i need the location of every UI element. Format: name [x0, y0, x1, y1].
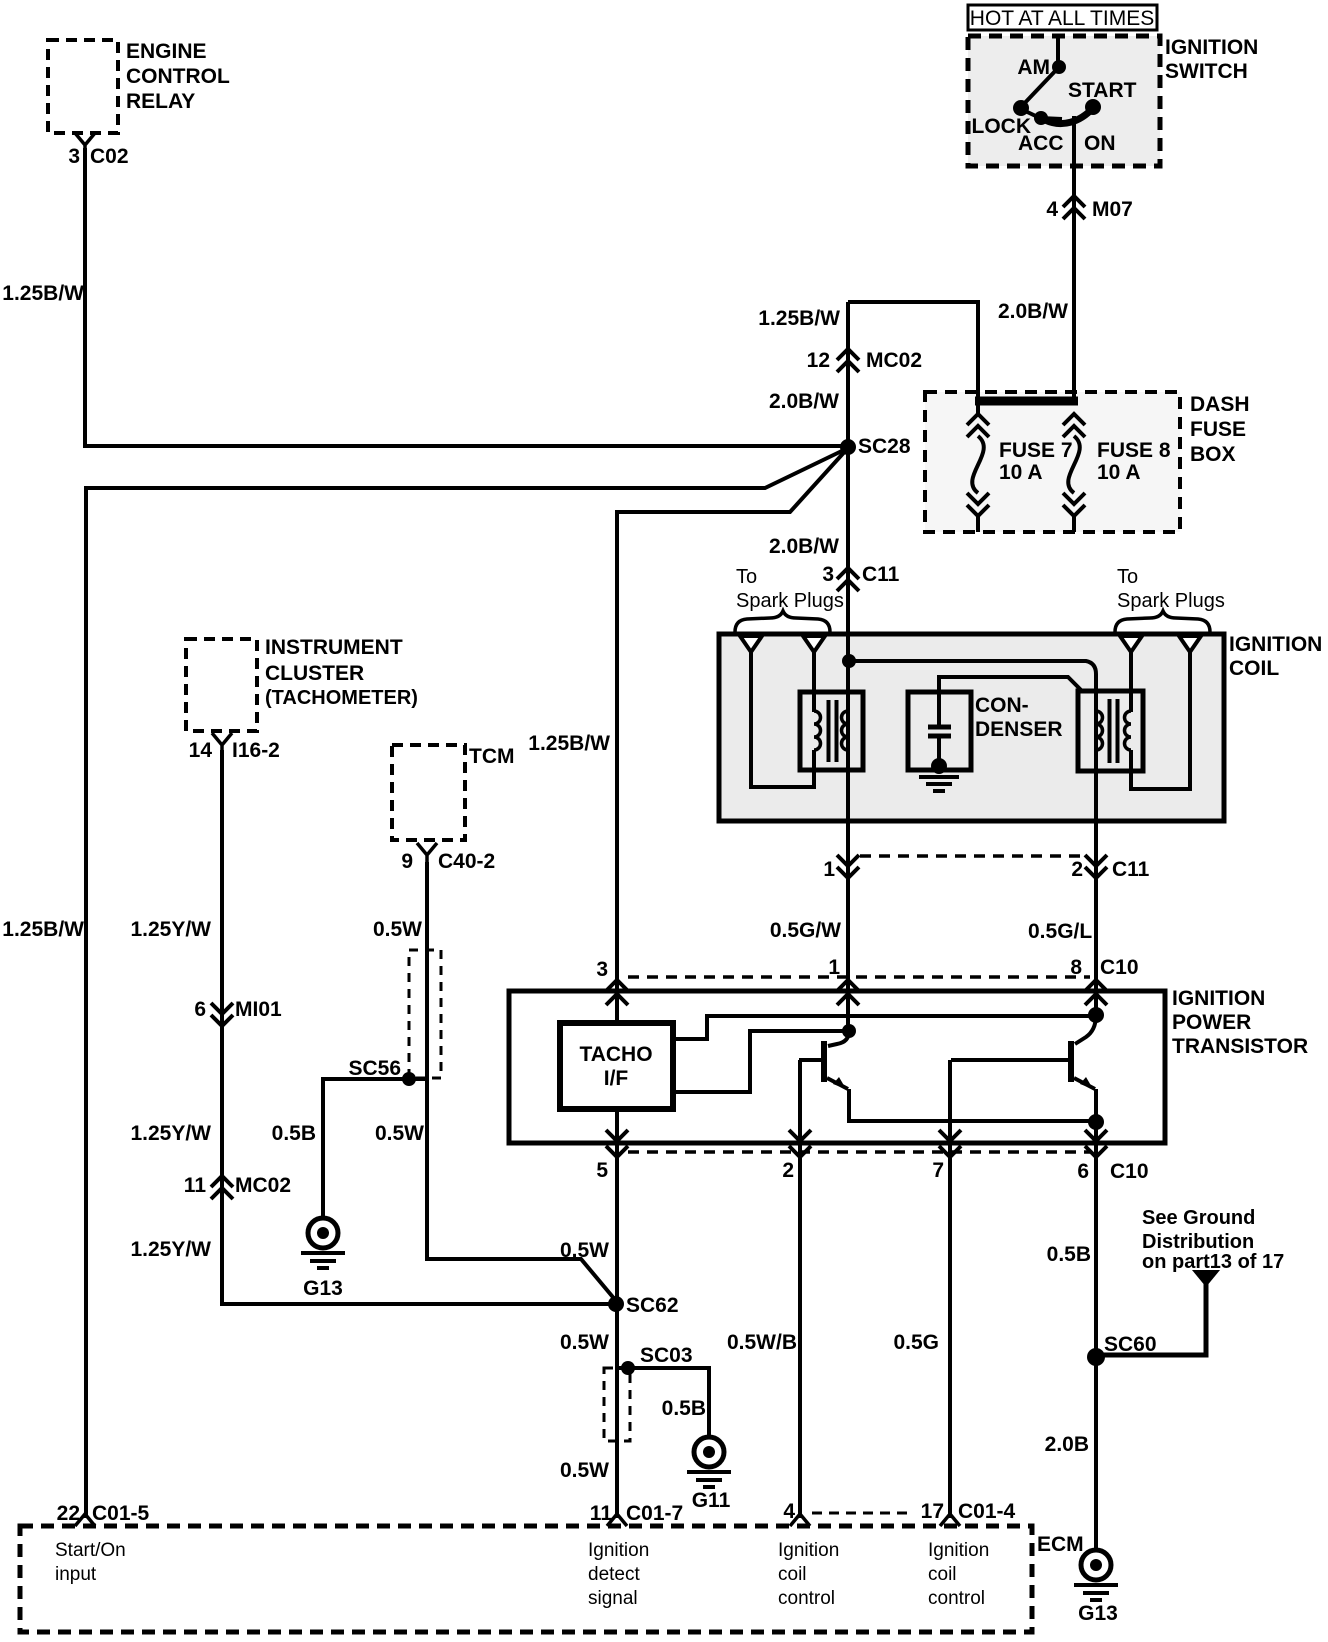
svg-text:0.5W: 0.5W: [375, 1122, 424, 1145]
svg-text:SC62: SC62: [626, 1294, 679, 1317]
svg-text:control: control: [778, 1588, 835, 1609]
svg-text:Ignition: Ignition: [778, 1540, 839, 1561]
svg-text:I/F: I/F: [604, 1067, 629, 1090]
svg-text:12: 12: [807, 349, 830, 372]
svg-text:G13: G13: [1078, 1602, 1118, 1625]
svg-text:2.0B: 2.0B: [1045, 1433, 1089, 1456]
svg-text:14: 14: [189, 739, 213, 762]
svg-text:RELAY: RELAY: [126, 90, 195, 113]
svg-text:17: 17: [921, 1500, 944, 1523]
svg-text:MC02: MC02: [235, 1174, 291, 1197]
svg-text:2: 2: [782, 1159, 794, 1182]
svg-text:11: 11: [184, 1174, 207, 1197]
svg-text:6: 6: [194, 998, 206, 1021]
svg-text:CLUSTER: CLUSTER: [265, 662, 364, 685]
svg-text:3: 3: [68, 145, 80, 168]
svg-text:0.5G: 0.5G: [893, 1331, 939, 1354]
svg-text:Distribution: Distribution: [1142, 1231, 1254, 1253]
svg-text:2.0B/W: 2.0B/W: [769, 390, 839, 413]
svg-text:C10: C10: [1110, 1160, 1149, 1183]
svg-text:SC28: SC28: [858, 435, 911, 458]
svg-text:To: To: [1117, 566, 1138, 588]
svg-text:0.5B: 0.5B: [272, 1122, 316, 1145]
svg-text:0.5G/W: 0.5G/W: [770, 919, 841, 942]
svg-text:SC60: SC60: [1104, 1333, 1157, 1356]
svg-text:POWER: POWER: [1172, 1011, 1251, 1034]
svg-text:0.5B: 0.5B: [662, 1397, 706, 1420]
svg-text:Ignition: Ignition: [928, 1540, 989, 1561]
svg-text:1.25B/W: 1.25B/W: [758, 307, 840, 330]
svg-text:FUSE 8: FUSE 8: [1097, 439, 1171, 462]
svg-text:Spark Plugs: Spark Plugs: [1117, 590, 1225, 612]
svg-text:8: 8: [1070, 956, 1082, 979]
svg-text:ON: ON: [1084, 132, 1116, 155]
svg-text:MC02: MC02: [866, 349, 922, 372]
svg-text:3: 3: [822, 563, 834, 586]
svg-text:0.5B: 0.5B: [1047, 1243, 1091, 1266]
svg-text:10 A: 10 A: [999, 461, 1043, 484]
svg-text:SC03: SC03: [640, 1344, 693, 1367]
svg-text:TCM: TCM: [469, 745, 515, 768]
svg-text:ACC: ACC: [1018, 132, 1064, 155]
svg-text:4: 4: [783, 1500, 795, 1523]
svg-text:3: 3: [596, 958, 608, 981]
svg-text:CON-: CON-: [975, 694, 1029, 717]
svg-text:on part13 of 17: on part13 of 17: [1142, 1251, 1284, 1273]
svg-text:detect: detect: [588, 1564, 640, 1585]
svg-text:1: 1: [828, 956, 840, 979]
svg-text:SWITCH: SWITCH: [1165, 60, 1248, 83]
svg-text:SC56: SC56: [348, 1057, 401, 1080]
svg-text:1.25B/W: 1.25B/W: [2, 282, 84, 305]
svg-text:2: 2: [1071, 858, 1083, 881]
svg-text:See Ground: See Ground: [1142, 1207, 1255, 1229]
svg-text:I16-2: I16-2: [232, 739, 280, 762]
svg-text:HOT AT ALL TIMES: HOT AT ALL TIMES: [970, 7, 1154, 30]
svg-text:coil: coil: [928, 1564, 957, 1585]
svg-text:To: To: [736, 566, 757, 588]
svg-text:BOX: BOX: [1190, 443, 1236, 466]
svg-text:6: 6: [1077, 1160, 1089, 1183]
svg-text:1.25Y/W: 1.25Y/W: [130, 1122, 211, 1145]
svg-text:4: 4: [1046, 198, 1058, 221]
svg-text:5: 5: [596, 1159, 608, 1182]
svg-text:input: input: [55, 1564, 97, 1585]
svg-text:0.5G/L: 0.5G/L: [1028, 920, 1092, 943]
svg-text:IGNITION: IGNITION: [1229, 633, 1322, 656]
svg-text:1: 1: [823, 858, 835, 881]
svg-text:IGNITION: IGNITION: [1172, 987, 1265, 1010]
svg-text:7: 7: [932, 1159, 944, 1182]
svg-text:C10: C10: [1100, 956, 1139, 979]
svg-text:C01-5: C01-5: [92, 1502, 150, 1525]
svg-text:2.0B/W: 2.0B/W: [769, 535, 839, 558]
svg-text:22: 22: [57, 1502, 80, 1525]
svg-text:C01-4: C01-4: [958, 1500, 1016, 1523]
svg-text:1.25B/W: 1.25B/W: [528, 732, 610, 755]
svg-text:1.25Y/W: 1.25Y/W: [130, 1238, 211, 1261]
svg-text:DENSER: DENSER: [975, 718, 1063, 741]
svg-text:coil: coil: [778, 1564, 807, 1585]
svg-text:ECM: ECM: [1037, 1533, 1084, 1556]
svg-text:C11: C11: [862, 563, 900, 586]
svg-text:2.0B/W: 2.0B/W: [998, 300, 1068, 323]
svg-text:C11: C11: [1112, 858, 1150, 881]
svg-text:0.5W: 0.5W: [560, 1331, 609, 1354]
svg-text:G11: G11: [692, 1489, 731, 1512]
svg-text:MI01: MI01: [235, 998, 282, 1021]
svg-text:G13: G13: [303, 1277, 343, 1300]
svg-text:9: 9: [401, 850, 413, 873]
svg-text:AM: AM: [1017, 56, 1050, 79]
svg-text:FUSE 7: FUSE 7: [999, 439, 1073, 462]
svg-text:FUSE: FUSE: [1190, 418, 1246, 441]
svg-text:M07: M07: [1092, 198, 1133, 221]
svg-text:ENGINE: ENGINE: [126, 40, 207, 63]
svg-text:11: 11: [590, 1502, 613, 1525]
svg-text:TRANSISTOR: TRANSISTOR: [1172, 1035, 1308, 1058]
svg-text:0.5W: 0.5W: [560, 1459, 609, 1482]
svg-text:C40-2: C40-2: [438, 850, 495, 873]
svg-text:C02: C02: [90, 145, 129, 168]
svg-text:START: START: [1068, 79, 1137, 102]
svg-text:CONTROL: CONTROL: [126, 65, 230, 88]
svg-text:(TACHOMETER): (TACHOMETER): [265, 687, 418, 709]
svg-text:Spark Plugs: Spark Plugs: [736, 590, 844, 612]
svg-text:control: control: [928, 1588, 985, 1609]
svg-text:1.25Y/W: 1.25Y/W: [130, 918, 211, 941]
svg-text:C01-7: C01-7: [626, 1502, 683, 1525]
svg-text:0.5W: 0.5W: [560, 1239, 609, 1262]
svg-text:INSTRUMENT: INSTRUMENT: [265, 636, 403, 659]
svg-text:0.5W/B: 0.5W/B: [727, 1331, 797, 1354]
svg-text:TACHO: TACHO: [579, 1043, 652, 1066]
svg-text:Ignition: Ignition: [588, 1540, 649, 1561]
svg-text:10 A: 10 A: [1097, 461, 1141, 484]
svg-text:DASH: DASH: [1190, 393, 1250, 416]
svg-text:0.5W: 0.5W: [373, 918, 422, 941]
svg-text:COIL: COIL: [1229, 657, 1279, 680]
svg-text:signal: signal: [588, 1588, 638, 1609]
svg-text:1.25B/W: 1.25B/W: [2, 918, 84, 941]
svg-text:Start/On: Start/On: [55, 1540, 126, 1561]
svg-text:IGNITION: IGNITION: [1165, 36, 1258, 59]
